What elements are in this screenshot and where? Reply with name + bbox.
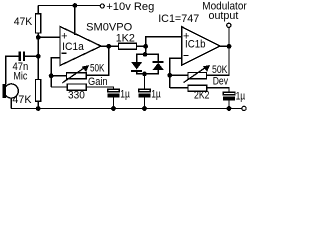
diode D2 anode triangle — [153, 63, 164, 70]
svg-text:+10v Reg: +10v Reg — [106, 1, 154, 13]
svg-text:IC1a: IC1a — [62, 41, 85, 53]
node top rail junction — [73, 3, 78, 8]
svg-text:+: + — [61, 30, 67, 42]
svg-text:1µ: 1µ — [120, 88, 130, 100]
wire IC1a -input — [51, 58, 60, 87]
resistor R3 330 — [67, 84, 86, 90]
node A +input tap — [36, 35, 41, 40]
wire bus to pot VR2 — [170, 74, 188, 76]
wire to modulator terminal — [228, 28, 230, 47]
svg-text:1K2: 1K2 — [116, 33, 135, 45]
capacitor C4 1u plus plate — [223, 92, 235, 94]
potentiometer VR1 50K body — [67, 73, 87, 79]
wire IC1a output — [101, 45, 119, 47]
resistor R4 1K2 — [119, 43, 137, 49]
svg-text:50K: 50K — [90, 63, 105, 75]
capacitor C3 1u minus plate — [139, 94, 151, 98]
wire R5 to C4 — [207, 88, 229, 93]
wire bus to R5 2K2 — [170, 87, 188, 89]
svg-text:Gain: Gain — [88, 76, 108, 88]
pin - IC1b — [183, 54, 188, 56]
capacitor C1 47n — [20, 51, 24, 61]
svg-text:Mic: Mic — [13, 71, 27, 83]
wire feedback VR2 to output node — [207, 46, 230, 75]
capacitor C2 1u minus plate — [108, 94, 120, 98]
svg-text:IC1=747: IC1=747 — [158, 13, 199, 25]
node -input bus a — [49, 73, 54, 78]
wire 1K2 to diode node — [137, 45, 146, 47]
wire ground rail — [11, 108, 241, 110]
wire feedback VR1 to output node — [86, 46, 109, 75]
wire C2 to ground — [113, 97, 115, 108]
terminal +10v Reg — [100, 4, 104, 8]
op-amp U1a IC1a — [60, 27, 101, 66]
node output IC1a — [106, 44, 111, 49]
node C3-ground — [142, 106, 147, 111]
capacitor C2 1u plus plate — [108, 89, 120, 91]
node C2-ground — [111, 106, 116, 111]
node diode bus top — [143, 52, 148, 57]
terminal modulator output — [227, 23, 231, 27]
potentiometer VR2 50K body — [188, 73, 207, 79]
wire to IC1b +input — [146, 37, 182, 47]
wire 47n branch — [6, 56, 38, 84]
diode D1 cathode bar — [131, 70, 142, 72]
wire top rail +10v — [38, 5, 100, 7]
svg-text:1µ: 1µ — [151, 88, 161, 100]
svg-text:output: output — [209, 10, 239, 22]
diode D2 cathode bar — [153, 61, 164, 63]
diode D1 anode triangle — [131, 62, 142, 69]
node R2-ground — [36, 106, 41, 111]
wire bus to R3 330 — [51, 86, 67, 88]
svg-text:1µ: 1µ — [236, 90, 246, 102]
pot VR1 arrow — [62, 67, 85, 83]
op-amp U1b IC1b — [182, 27, 220, 65]
node B 47n tap — [36, 54, 41, 59]
wire diode bottom bus — [137, 70, 159, 74]
wire C3 to ground — [144, 97, 146, 108]
svg-text:330: 330 — [68, 90, 85, 102]
svg-text:50K: 50K — [212, 64, 228, 76]
wire node A to IC1a +input — [38, 36, 60, 38]
svg-text:47K: 47K — [14, 16, 33, 28]
node -input bus b — [167, 73, 172, 78]
resistor R2 47K lower-left — [36, 80, 41, 102]
wire bus to pot VR1 — [51, 75, 66, 77]
node C4-ground — [227, 106, 232, 111]
wire IC1b -input — [170, 58, 182, 87]
terminal ground — [242, 106, 246, 110]
wire R3 to C2 — [86, 87, 113, 89]
capacitor C4 1u minus plate — [223, 97, 235, 101]
wire IC1b output — [220, 45, 229, 47]
pot VR2 arrow — [184, 67, 207, 83]
node diode bus bottom — [142, 72, 147, 77]
svg-text:47K: 47K — [12, 94, 32, 106]
microphone Mic — [3, 84, 6, 98]
resistor R5 2K2 — [188, 85, 207, 91]
wire V+ to IC1a top edge — [74, 6, 76, 36]
resistor R1 47K upper-left — [36, 14, 41, 33]
svg-text:Dev: Dev — [213, 76, 229, 88]
wire diode bus to C3 — [144, 74, 146, 90]
wire diode top bus — [137, 54, 159, 62]
node output IC1b — [227, 44, 232, 49]
wire down to diode bus — [145, 46, 147, 54]
node diode feed — [143, 44, 148, 49]
svg-text:2K2: 2K2 — [194, 89, 210, 101]
capacitor C3 1u plus plate — [139, 89, 151, 91]
pin - IC1a — [61, 52, 66, 54]
svg-text:+: + — [183, 31, 189, 43]
wire mic to ground rail — [10, 98, 12, 108]
wire C4 to ground — [228, 100, 230, 108]
